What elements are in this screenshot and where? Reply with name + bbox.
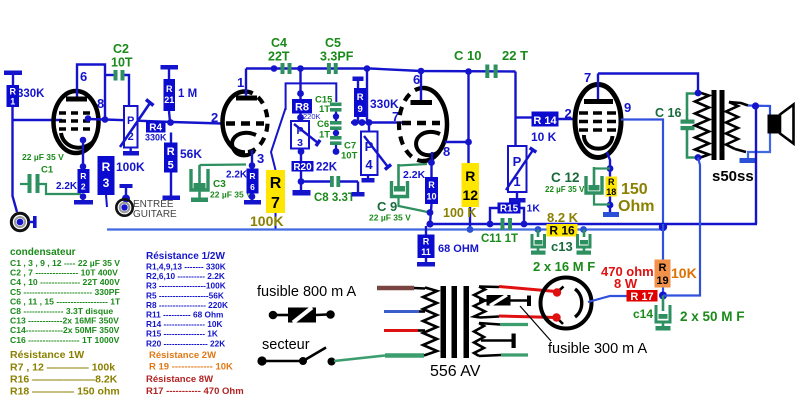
capacitor c14 [633, 296, 745, 331]
svg-text:330K: 330K [145, 133, 167, 143]
svg-text:22 µF 35 V: 22 µF 35 V [22, 152, 64, 162]
svg-text:21: 21 [164, 95, 174, 105]
svg-text:R17 ----------- 470 Ohm: R17 ----------- 470 Ohm [146, 386, 244, 397]
ground P1 [509, 192, 526, 203]
node B+ c14 [659, 292, 667, 300]
tube V2 plate [236, 69, 257, 99]
svg-text:R: R [357, 92, 364, 103]
tube V2 cathode [232, 133, 256, 156]
svg-text:R3 -----------------100K: R3 -----------------100K [146, 281, 226, 291]
svg-text:R: R [249, 171, 255, 181]
capacitor C6 [317, 119, 342, 141]
wire R1 to input jack [13, 107, 18, 212]
wire grid tube1 [13, 119, 63, 121]
HV lead top [479, 287, 556, 292]
primary lead brown [377, 286, 425, 291]
heater lead top (green) [479, 323, 528, 325]
svg-text:R: R [10, 87, 17, 97]
svg-text:R: R [608, 177, 615, 187]
capacitor C3 [191, 165, 252, 203]
svg-text:150: 150 [621, 181, 648, 198]
svg-text:10T: 10T [111, 56, 133, 70]
resistor R18 (1W yellow) [606, 177, 655, 216]
svg-text:5: 5 [168, 160, 174, 172]
node C4 left [271, 65, 278, 72]
svg-text:R2,6,10 ---------- 2.2K: R2,6,10 ---------- 2.2K [146, 271, 225, 281]
svg-text:100 K: 100 K [443, 206, 476, 220]
capacitor C9 [369, 164, 430, 223]
wire cathode V4 [607, 152, 610, 205]
svg-text:22T: 22T [268, 50, 290, 64]
svg-text:R11 ---------- 68 Ohm: R11 ---------- 68 Ohm [146, 310, 223, 320]
wire secondary bottom [735, 149, 746, 152]
heater center tap terminal [481, 334, 516, 349]
output transformer primary [695, 90, 709, 161]
resistor R1 [4, 71, 45, 108]
potentiometer P4 [361, 119, 391, 175]
resistor R17 (8W red) [601, 264, 658, 303]
ground P4 [362, 175, 375, 183]
resistor R12 (1W yellow) [443, 72, 479, 230]
resistor R21 [161, 65, 198, 122]
resistor R16 (1W yellow) [535, 223, 668, 238]
svg-text:22 T: 22 T [502, 48, 528, 63]
capacitor C15 [315, 95, 342, 122]
svg-text:3: 3 [297, 137, 303, 149]
svg-text:2 x 50 M F: 2 x 50 M F [680, 309, 745, 324]
svg-text:8: 8 [443, 144, 450, 159]
svg-text:R20: R20 [293, 162, 312, 173]
svg-text:c14: c14 [633, 307, 653, 321]
wire node to OT primary [663, 158, 700, 296]
output transformer core [712, 90, 725, 160]
potentiometer P1 [506, 146, 536, 192]
svg-text:C2 , 7 --------------- 10T 4: C2 , 7 --------------- 10T 400V [10, 268, 118, 278]
heater secondary winding [474, 323, 484, 356]
tube V2 grid dashes [226, 121, 264, 126]
svg-text:2.2K: 2.2K [403, 169, 426, 181]
svg-text:C1: C1 [41, 165, 54, 176]
svg-text:C8 3.3T: C8 3.3T [314, 192, 355, 204]
node rail R12 [465, 68, 472, 75]
svg-text:2: 2 [81, 182, 86, 192]
svg-text:secteur: secteur [262, 337, 310, 353]
fuse 800mA [269, 308, 335, 323]
svg-text:C 16: C 16 [655, 106, 681, 120]
resistor R10 [403, 162, 438, 224]
node grid V1 [85, 115, 92, 122]
capacitor C8 [301, 176, 358, 204]
svg-text:GUITARE: GUITARE [133, 209, 177, 220]
svg-text:C4: C4 [271, 36, 287, 50]
capacitor C16 [655, 94, 698, 158]
svg-text:12: 12 [463, 187, 479, 203]
capacitor C10 [454, 48, 528, 78]
svg-text:2.2K: 2.2K [226, 170, 248, 181]
potentiometer P2 [116, 100, 154, 175]
svg-text:Résistance 1W: Résistance 1W [10, 349, 84, 361]
capacitor C5 [320, 36, 354, 74]
svg-text:c13: c13 [551, 239, 573, 254]
heater lead bottom (green) [479, 355, 528, 356]
ground C8 left [293, 184, 311, 196]
svg-text:19: 19 [656, 275, 668, 287]
svg-text:R7 , 12 ———— 100k: R7 , 12 ———— 100k [10, 362, 115, 374]
capacitor C13a [531, 230, 546, 255]
svg-text:1T: 1T [319, 130, 330, 141]
svg-text:68 OHM: 68 OHM [438, 243, 479, 255]
svg-text:C5 ------------------------ 3: C5 ------------------------ 330PF [10, 287, 120, 297]
capacitor C1 [20, 152, 81, 194]
svg-text:2: 2 [565, 106, 572, 121]
svg-text:fusible 300 m A: fusible 300 m A [548, 341, 647, 357]
svg-text:8: 8 [97, 96, 104, 111]
svg-text:R8 ----------------- 220K: R8 ----------------- 220K [146, 300, 228, 310]
svg-text:R: R [465, 168, 475, 184]
power transformer core [441, 286, 470, 358]
svg-text:R: R [80, 171, 86, 181]
svg-text:C2: C2 [113, 42, 129, 56]
svg-text:10T: 10T [341, 151, 358, 162]
svg-text:R14 --------------- 10K: R14 --------------- 10K [146, 319, 223, 329]
svg-text:11: 11 [421, 247, 431, 257]
svg-text:8 W: 8 W [614, 276, 638, 291]
svg-text:Résistance 8W: Résistance 8W [146, 374, 213, 385]
wire plate V3 to R12 [445, 141, 469, 143]
svg-text:R 17: R 17 [630, 291, 653, 303]
tube V1 grid dashes [59, 113, 95, 129]
svg-text:R 14: R 14 [533, 115, 557, 127]
svg-text:R: R [166, 84, 173, 94]
svg-text:6: 6 [413, 72, 420, 87]
svg-text:C16 ------------------ 1T 100: C16 ------------------ 1T 1000V [10, 335, 120, 345]
svg-text:3: 3 [257, 151, 264, 166]
svg-text:7: 7 [584, 70, 591, 85]
svg-text:R16 ——————8.2K: R16 ——————8.2K [10, 374, 118, 386]
ground speaker [740, 158, 756, 163]
capacitor C2 [105, 42, 133, 106]
legend resistance 8W [146, 374, 244, 397]
tube V3 plate [411, 71, 433, 103]
resistor R4 [145, 121, 167, 143]
wire screen V4 [621, 120, 663, 225]
capacitor C12 [545, 167, 610, 205]
ground R11 [417, 258, 435, 267]
feedback loop wire [286, 83, 337, 110]
svg-text:C 10: C 10 [454, 48, 481, 63]
svg-text:C4 , 10 -------------- 22T 40: C4 , 10 -------------- 22T 400V [10, 277, 120, 287]
wire plate V4 to OT [598, 74, 698, 94]
ground R2 [74, 193, 93, 204]
wire rail to V3 grid [351, 69, 404, 126]
svg-text:1 M: 1 M [178, 88, 197, 100]
svg-text:100K: 100K [116, 160, 145, 174]
rectifier tube [541, 278, 592, 329]
svg-text:fusible 800 m A: fusible 800 m A [257, 284, 356, 300]
legend resistance 2W [149, 350, 233, 373]
tube V2 envelope (left solid, right dashed) [223, 92, 268, 153]
svg-text:6: 6 [250, 182, 255, 192]
svg-text:3.3PF: 3.3PF [320, 50, 354, 64]
capacitor C13b [577, 230, 592, 255]
resistor R15 [487, 203, 541, 228]
svg-text:R: R [423, 237, 430, 247]
svg-text:10 K: 10 K [531, 130, 557, 144]
svg-text:C11 1T: C11 1T [481, 233, 518, 245]
resistor R6 [226, 169, 259, 194]
resistor R9 [353, 77, 400, 123]
svg-text:C5: C5 [325, 36, 341, 50]
wire rail to R19 [662, 224, 664, 260]
node rail V3 [418, 68, 425, 75]
wire secondary top to speaker [729, 102, 770, 115]
heater rail (light blue) [107, 228, 663, 230]
svg-text:330K: 330K [17, 88, 45, 100]
wire speaker return [748, 134, 770, 159]
top rail V2/V3 plate [246, 69, 516, 72]
tube V4 plate [584, 74, 613, 102]
capacitor C4 [268, 36, 292, 74]
ground C8 right [352, 182, 365, 197]
svg-text:condensateur: condensateur [10, 247, 76, 258]
wire C10 to P1/R14 [516, 72, 532, 147]
svg-text:C 12: C 12 [551, 170, 580, 185]
pointer to fuse [520, 306, 551, 341]
resistor R2 [56, 169, 90, 193]
wire cathode V2 [251, 150, 253, 169]
tube V1 cathode [61, 133, 93, 148]
capacitor C7 [330, 136, 358, 162]
resistor R8 [292, 69, 321, 122]
svg-text:1T: 1T [319, 104, 330, 115]
tube V1 envelope [54, 91, 99, 153]
svg-text:9: 9 [624, 100, 631, 115]
resistor R20 [292, 149, 338, 182]
svg-text:3: 3 [103, 176, 110, 190]
output transformer secondary [726, 102, 738, 149]
resistor R7 (1W yellow) [250, 108, 286, 230]
svg-text:C3: C3 [213, 179, 226, 190]
wire cathode V3 [431, 152, 433, 162]
svg-text:P: P [127, 115, 134, 127]
node plate V1 [102, 116, 109, 123]
resistor R5 [164, 133, 202, 173]
svg-text:R: R [167, 146, 175, 158]
svg-text:C6 , 11 , 15 -----------------: C6 , 11 , 15 ------------------ 1T [10, 296, 121, 306]
input jack J1 [11, 213, 36, 230]
node cathode bottom [607, 202, 614, 209]
jack ENTREE GUITARE [116, 184, 177, 220]
node P3 bottom [298, 148, 305, 155]
ground P2 [123, 148, 139, 156]
wire cathode V1 [82, 140, 84, 169]
svg-text:R: R [102, 160, 111, 174]
svg-text:R 19 ------------- 10K: R 19 ------------- 10K [149, 362, 233, 373]
resistor R14 [531, 112, 575, 145]
power transformer primary winding [423, 288, 437, 356]
node R12 on heater rail [467, 226, 474, 233]
svg-text:556 AV: 556 AV [430, 363, 481, 380]
node R21/R4 [167, 119, 174, 126]
svg-text:10K: 10K [671, 265, 697, 281]
svg-text:18: 18 [606, 187, 616, 197]
tube V3 grid dashes [402, 121, 440, 126]
svg-text:R 16: R 16 [549, 224, 575, 238]
tube V4 cathode [584, 135, 613, 149]
wire rectifier to R17 [588, 296, 627, 302]
wire plate V1 to P2/R4 [88, 119, 222, 124]
wire OT to B+ rail [755, 106, 757, 224]
svg-text:R15: R15 [500, 204, 519, 215]
resistor R3 [98, 156, 115, 207]
svg-text:2.2K: 2.2K [56, 181, 78, 192]
svg-text:7: 7 [271, 195, 280, 212]
svg-text:9: 9 [358, 104, 363, 115]
node rail R9 [364, 65, 371, 72]
fuse 300mA on HV center tap [479, 295, 531, 306]
svg-text:C14-------------2x 50MF 350V: C14-------------2x 50MF 350V [10, 325, 120, 335]
resistor R19 (2W orange) [655, 260, 697, 288]
svg-text:Résistance 1/2W: Résistance 1/2W [146, 251, 225, 262]
svg-text:1: 1 [237, 75, 244, 90]
svg-text:Ohm: Ohm [618, 198, 654, 215]
svg-text:R18 ———— 150 ohm: R18 ———— 150 ohm [10, 386, 120, 398]
primary lead red [384, 329, 425, 332]
svg-text:Résistance 2W: Résistance 2W [149, 350, 216, 361]
svg-text:s50ss: s50ss [712, 168, 754, 185]
tube V3 envelope (left dashed, right solid) [399, 88, 447, 161]
svg-text:22 µF 35 V: 22 µF 35 V [545, 185, 585, 194]
switch secteur [257, 348, 335, 366]
ground R18/C12 [603, 205, 619, 217]
speaker [768, 105, 794, 144]
svg-text:100K: 100K [250, 213, 283, 229]
svg-text:2 x 16 M F: 2 x 16 M F [533, 259, 595, 274]
svg-text:R1,4,9,13 ------- 330K: R1,4,9,13 ------- 330K [146, 262, 226, 272]
svg-text:10: 10 [426, 192, 436, 202]
svg-text:22 µF 35 V: 22 µF 35 V [210, 190, 252, 200]
svg-text:R20 ---------------- 22K: R20 ---------------- 22K [146, 338, 225, 348]
svg-text:56K: 56K [180, 147, 202, 161]
wire R19 to node [662, 288, 664, 296]
svg-text:C8 -------------- 3.3T di: C8 -------------- 3.3T disque [10, 306, 113, 316]
tube V3 cathode [416, 132, 440, 155]
HV secondary winding [474, 287, 485, 318]
svg-text:R: R [428, 180, 435, 190]
ground R5 [163, 173, 181, 201]
svg-text:C6: C6 [317, 119, 329, 130]
node C8 left [298, 178, 305, 185]
node C4 right [297, 65, 304, 72]
svg-text:R5 ------------------56K: R5 ------------------56K [146, 290, 224, 300]
primary lead blue [384, 310, 425, 313]
tube V4 envelope [575, 85, 621, 158]
tube V1 plate [66, 65, 105, 121]
wire secteur to transformer (green) [334, 356, 424, 362]
node B rail start [426, 220, 433, 227]
svg-text:C13 ------------2x 16MF 350V: C13 ------------2x 16MF 350V [10, 316, 119, 326]
tube V4 grid dashes [579, 113, 618, 130]
svg-text:22K: 22K [316, 162, 338, 174]
HV lead bottom [480, 316, 556, 318]
svg-text:2: 2 [211, 110, 218, 125]
capacitor C11 [481, 218, 518, 245]
ground R6 [244, 193, 261, 205]
node cathode V1 [80, 137, 87, 144]
svg-text:R15 --------------- 1K: R15 --------------- 1K [146, 329, 218, 339]
resistor R11 [418, 226, 479, 258]
legend condensateur [10, 247, 121, 345]
svg-text:22 µF 35 V: 22 µF 35 V [369, 213, 411, 223]
svg-text:R: R [659, 262, 667, 274]
svg-text:R: R [270, 175, 282, 192]
svg-text:1K: 1K [527, 203, 541, 215]
svg-text:1: 1 [10, 97, 15, 107]
B+ rail [430, 223, 757, 225]
legend resistance 1/2W [146, 251, 228, 348]
legend resistance 1W [10, 349, 120, 398]
node cathode top [607, 165, 614, 172]
svg-text:4: 4 [365, 157, 373, 172]
svg-text:C1 , 3 , 9 , 12 ---- 22 µF 35: C1 , 3 , 9 , 12 ---- 22 µF 35 V [10, 258, 120, 268]
svg-text:6: 6 [80, 69, 87, 84]
potentiometer P3 [291, 121, 320, 149]
